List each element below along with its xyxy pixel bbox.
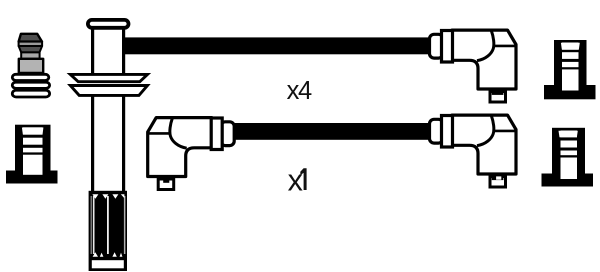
elbow boot bottom-right — [430, 115, 517, 187]
coil pencil connector — [70, 20, 147, 271]
terminal tower left — [6, 125, 58, 184]
terminal tower bottom-right — [542, 128, 594, 187]
ignition cable bottom (x1 lead) — [232, 123, 431, 140]
elbow boot bottom-left (mirrored) — [148, 118, 235, 190]
spark plug symbol — [12, 34, 49, 97]
ignition cable top (x4 lead) — [124, 37, 431, 54]
svg-text:4: 4 — [298, 77, 312, 105]
terminal tower top-right — [544, 40, 596, 99]
svg-text:x: x — [288, 163, 303, 197]
elbow boot top-right — [430, 30, 517, 102]
